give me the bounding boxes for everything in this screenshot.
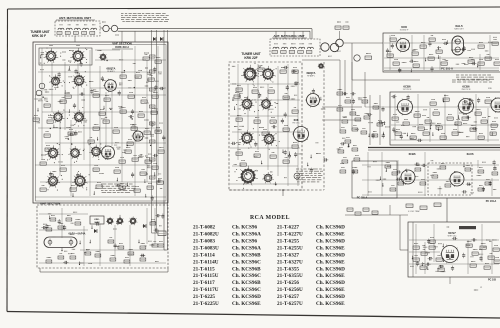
svg-text:KRK 22F: KRK 22F (244, 56, 257, 60)
svg-text:Ch. KCS96: Ch. KCS96 (232, 225, 257, 231)
svg-text:1ST PIX IF: 1ST PIX IF (403, 89, 413, 91)
svg-text:6AL5: 6AL5 (455, 24, 463, 28)
svg-text:21-T-6082U: 21-T-6082U (193, 232, 219, 238)
svg-text:21-T-6256: 21-T-6256 (277, 280, 299, 286)
svg-text:21-T-6257U: 21-T-6257U (277, 301, 303, 307)
svg-text:Ch. KCS96C: Ch. KCS96C (232, 287, 261, 293)
svg-text:UHF SECTION: UHF SECTION (40, 202, 60, 206)
svg-text:21-T-6327U: 21-T-6327U (277, 259, 303, 265)
svg-text:PC 104-A: PC 104-A (486, 200, 497, 203)
svg-text:21-T-6225U: 21-T-6225U (193, 301, 219, 307)
svg-text:Ch. KCS96D: Ch. KCS96D (316, 239, 345, 245)
svg-text:4.5 MC TRAP: 4.5 MC TRAP (408, 210, 420, 213)
svg-text:ANT. MATCHING UNIT: ANT. MATCHING UNIT (273, 34, 304, 38)
svg-text:SOUND IF: SOUND IF (400, 30, 409, 32)
svg-text:6CB6: 6CB6 (462, 85, 470, 89)
svg-text:PC 105: PC 105 (488, 279, 497, 282)
svg-text:ANT.: ANT. (337, 50, 342, 53)
svg-text:6CB6: 6CB6 (403, 85, 411, 89)
svg-text:KRK-: KRK- (94, 219, 100, 221)
svg-text:PIX OSC: PIX OSC (292, 123, 300, 125)
svg-text:VERT OSC: VERT OSC (447, 236, 457, 238)
svg-text:21-T-6327: 21-T-6327 (277, 252, 299, 258)
svg-text:Ch. KCS96E: Ch. KCS96E (316, 301, 345, 307)
svg-text:Ch. KCS96D: Ch. KCS96D (316, 266, 345, 272)
svg-text:Ch. KCS96E: Ch. KCS96E (316, 259, 345, 265)
svg-text:KRK 29 H: KRK 29 H (115, 45, 128, 49)
svg-text:RATIO DET: RATIO DET (454, 28, 464, 31)
svg-text:Ch. KCS96A: Ch. KCS96A (232, 232, 261, 238)
svg-text:21-T-6225: 21-T-6225 (193, 294, 215, 300)
svg-text:Ch. KCS96C: Ch. KCS96C (232, 273, 261, 279)
svg-text:RF AMPL: RF AMPL (307, 75, 315, 78)
svg-text:Ch. KCS96E: Ch. KCS96E (316, 287, 345, 293)
svg-text:21-T-6115U: 21-T-6115U (193, 273, 219, 279)
svg-text:21-T-6227U: 21-T-6227U (277, 232, 303, 238)
svg-text:PC 101-A: PC 101-A (357, 197, 368, 200)
svg-text:6U8: 6U8 (401, 25, 407, 29)
svg-text:Ch. KCS96B: Ch. KCS96B (232, 280, 261, 286)
svg-text:6AF4 = 6AF4A: 6AF4 = 6AF4A (69, 233, 86, 236)
svg-text:6CB6: 6CB6 (409, 152, 416, 156)
svg-text:Ch. KCS96D: Ch. KCS96D (316, 280, 345, 286)
svg-text:6X8: 6X8 (294, 118, 299, 122)
svg-text:21-T-6355: 21-T-6355 (277, 266, 299, 272)
svg-text:Ch. KCS96D: Ch. KCS96D (316, 294, 345, 300)
svg-text:2ND PIX IF: 2ND PIX IF (461, 89, 471, 91)
svg-text:21-T-6114: 21-T-6114 (193, 252, 215, 258)
svg-text:Ch. KCS96D: Ch. KCS96D (232, 294, 261, 300)
svg-text:3RD: 3RD (488, 88, 493, 90)
svg-text:6BQ7A: 6BQ7A (107, 67, 116, 71)
svg-text:ANT.: ANT. (328, 55, 333, 58)
svg-text:Ch. KCS96E: Ch. KCS96E (316, 245, 345, 251)
svg-text:Ch. KCS96B: Ch. KCS96B (232, 252, 261, 258)
svg-text:ANT. MATCHING UNIT: ANT. MATCHING UNIT (59, 16, 91, 20)
svg-text:21-T-6115: 21-T-6115 (193, 266, 215, 272)
svg-text:21-T-6114U: 21-T-6114U (193, 259, 219, 265)
svg-text:RF AMPL: RF AMPL (107, 70, 115, 73)
svg-text:RCA MODEL: RCA MODEL (250, 215, 290, 221)
svg-text:6CS7: 6CS7 (448, 231, 456, 235)
svg-text:21-T-6257: 21-T-6257 (277, 294, 299, 300)
svg-text:Ch. KCS96E: Ch. KCS96E (232, 301, 261, 307)
svg-text:Ch. KCS96A: Ch. KCS96A (232, 245, 261, 251)
svg-text:Ch. KCS96D: Ch. KCS96D (316, 225, 345, 231)
svg-text:21-T-6117U: 21-T-6117U (193, 287, 219, 293)
svg-text:Ch. KCS96E: Ch. KCS96E (316, 273, 345, 279)
svg-text:21-T-6083: 21-T-6083 (193, 239, 215, 245)
svg-text:Ch. KCS96B: Ch. KCS96B (232, 266, 261, 272)
svg-text:Ch. KCS96: Ch. KCS96 (232, 239, 257, 245)
svg-text:KRK 30 F: KRK 30 F (32, 34, 46, 38)
svg-text:21-T-6255: 21-T-6255 (277, 239, 299, 245)
svg-text:21-T-6255U: 21-T-6255U (277, 245, 303, 251)
svg-text:21-T-6117: 21-T-6117 (193, 280, 215, 286)
svg-text:6AU6: 6AU6 (467, 152, 474, 156)
svg-text:21-T-6355U: 21-T-6355U (277, 273, 303, 279)
svg-text:Ch. KCS96E: Ch. KCS96E (316, 232, 345, 238)
svg-text:21-T-6083U: 21-T-6083U (193, 245, 219, 251)
svg-text:21-T-6256U: 21-T-6256U (277, 287, 303, 293)
svg-text:Ch. KCS96C: Ch. KCS96C (232, 259, 261, 265)
svg-text:21-T-6227: 21-T-6227 (277, 225, 299, 231)
svg-text:Ch. KCS96D: Ch. KCS96D (316, 252, 345, 258)
svg-text:21-T-6082: 21-T-6082 (193, 225, 215, 231)
svg-text:PC 301-A: PC 301-A (441, 67, 453, 71)
svg-text:6BQ7A: 6BQ7A (307, 71, 316, 75)
